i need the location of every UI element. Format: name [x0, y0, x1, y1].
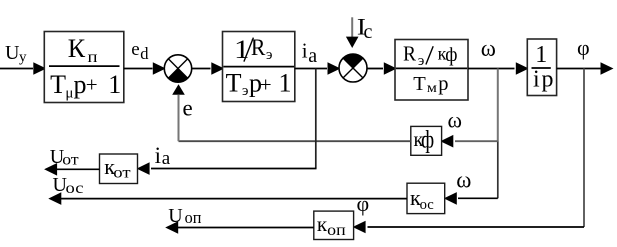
svg-text:p: p [74, 70, 87, 99]
svg-text:d: d [140, 44, 149, 63]
svg-text:i: i [533, 67, 540, 93]
svg-text:ω: ω [456, 168, 471, 193]
svg-text:y: y [19, 49, 27, 65]
svg-text:п: п [88, 49, 99, 66]
wire koc output Uoc [48, 192, 407, 205]
svg-text:U: U [5, 42, 20, 64]
svg-text:от: от [113, 165, 131, 182]
block G3 (Re/kf)/(Tm p) [395, 40, 468, 101]
svg-text:ф: ф [421, 126, 434, 153]
summing junction S1 (bottom quadrant filled) [164, 55, 191, 83]
node omega label (top) [481, 36, 496, 61]
svg-text:i: i [302, 39, 308, 63]
svg-text:К: К [68, 34, 86, 63]
svg-text:a: a [162, 148, 171, 169]
svg-text:e: e [183, 96, 193, 121]
svg-text:оп: оп [185, 208, 202, 227]
node Ic label [357, 14, 373, 43]
node omega label (kf row) [448, 108, 462, 133]
node Uoc label [53, 174, 84, 197]
node ed label [131, 39, 149, 63]
svg-text:T: T [50, 70, 66, 99]
wire S1 to block G2 [192, 62, 225, 75]
svg-text:R: R [403, 42, 416, 66]
node Uy input label [5, 42, 27, 65]
svg-text:+: + [260, 72, 272, 96]
svg-text:T: T [226, 69, 242, 98]
block koc [407, 183, 445, 213]
svg-text:p: p [438, 73, 448, 95]
block G1 Kp/(Tmu p+1) [44, 32, 124, 103]
svg-text:p: p [542, 67, 554, 93]
node ia label (kot row) [155, 143, 171, 169]
wire Ic into S2 [346, 17, 359, 48]
svg-text:i: i [155, 143, 161, 168]
wire kop output Uop [165, 221, 314, 234]
wire G1 to summing junction S1 [124, 62, 166, 75]
wire G4 to output with tap node [557, 62, 614, 75]
svg-text:ω: ω [481, 36, 496, 61]
svg-text:оп: оп [327, 222, 346, 239]
svg-text:φ: φ [357, 191, 370, 216]
summing junction S2 (top quadrant filled) [339, 54, 367, 82]
node Uop label [168, 205, 201, 227]
svg-text:ос: ос [66, 180, 84, 197]
node phi label (kop row) [357, 191, 370, 216]
svg-text:ω: ω [448, 108, 462, 133]
svg-text:э: э [242, 83, 248, 99]
wire omega tap vertical [497, 69, 499, 199]
svg-text:T: T [413, 73, 426, 95]
svg-text:ф: ф [445, 44, 457, 66]
node ia label (top) [302, 39, 318, 68]
node omega label (koc row) [456, 168, 471, 193]
svg-text:e: e [131, 39, 139, 60]
svg-text:от: от [62, 152, 79, 169]
wire omega tap into block kf [440, 135, 498, 148]
wire ia tap down to block kot [137, 69, 317, 175]
svg-text:a: a [308, 45, 317, 67]
block kop [314, 211, 354, 239]
wire G3 to block G4 with tap node [468, 62, 529, 75]
svg-text:μ: μ [65, 86, 73, 102]
svg-text:1: 1 [234, 35, 250, 64]
svg-text:ос: ос [420, 197, 435, 213]
svg-text:м: м [427, 80, 438, 95]
svg-text:U: U [168, 205, 183, 227]
block G4 1/ip [527, 39, 556, 96]
node e label [183, 96, 193, 121]
wire kot output Uot [44, 163, 99, 176]
wire S2 to block G3 [367, 62, 397, 75]
svg-text:c: c [364, 21, 373, 43]
svg-text:+: + [86, 73, 98, 97]
svg-text:R: R [251, 35, 266, 60]
block G2 (1/Re)/(Te p+1) [223, 32, 295, 102]
svg-text:э: э [266, 47, 272, 63]
block kot [100, 154, 138, 184]
wire phi tap down to block kop [353, 69, 584, 234]
wire G2 to summing junction S2 with tap node [295, 62, 341, 75]
wire omega tap into block koc [444, 192, 498, 205]
node phi label (top) [577, 35, 590, 60]
block kf [411, 126, 442, 155]
node Uot label [50, 146, 79, 169]
svg-text:1: 1 [535, 42, 547, 68]
svg-text:э: э [418, 53, 424, 69]
wire input Uy to block G1 [0, 62, 46, 75]
svg-text:φ: φ [577, 35, 590, 60]
svg-text:1: 1 [279, 69, 292, 98]
wire kf output to S1 (e feedback) [172, 84, 411, 141]
svg-text:1: 1 [108, 70, 121, 99]
